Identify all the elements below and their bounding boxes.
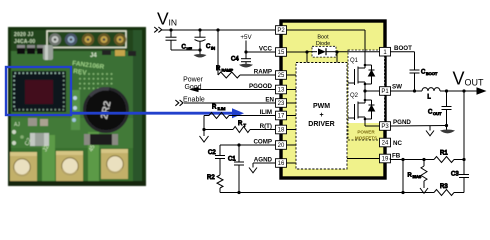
resistor RRAMP <box>216 66 275 78</box>
junction node bottom rail/FB vertical <box>401 160 404 195</box>
ground arrow (PGND) <box>426 126 434 136</box>
pin 24 (right) <box>380 138 391 147</box>
capacitor CIN (polarized) <box>195 30 216 51</box>
junction node VIN/CHF <box>169 28 172 31</box>
junction node COUT/PGND <box>445 124 448 127</box>
svg-text:13: 13 <box>278 88 285 94</box>
svg-text:COMP: COMP <box>253 139 272 146</box>
svg-text:EN: EN <box>265 97 274 104</box>
wire PVIN internal rail P2 to Q1 drain <box>286 30 365 62</box>
junction node FB/lower divider <box>401 158 404 161</box>
svg-text:OUT: OUT <box>433 111 442 116</box>
junction node VOUT/divider <box>462 89 465 92</box>
svg-text:C2: C2 <box>208 150 216 156</box>
pin P1 (right) <box>380 87 391 96</box>
resistor R3 <box>434 184 464 196</box>
svg-text:Boot: Boot <box>317 35 329 41</box>
node VOUT label <box>453 69 485 89</box>
capacitor C2 <box>208 145 225 159</box>
transistor Q2 <box>348 91 375 126</box>
PCB photo of FAN2106 evaluation board <box>8 27 146 186</box>
svg-text:BIAS: BIAS <box>413 175 422 179</box>
resistor R1 <box>434 151 464 163</box>
svg-text:PGND: PGND <box>393 119 411 126</box>
resistor RT <box>204 121 275 133</box>
junction node C1 bottom <box>237 191 240 194</box>
ground arrow (AGND) <box>249 163 257 173</box>
pin 23 (left) <box>276 99 287 108</box>
resistor R2 <box>207 159 223 193</box>
pin 1 (right) <box>380 47 391 56</box>
pin P2 (left) <box>276 26 287 35</box>
pin 16 (left) <box>276 159 287 168</box>
svg-text:Q2: Q2 <box>350 93 359 99</box>
svg-text:R: R <box>408 173 412 179</box>
junction node boot diode anode <box>305 50 308 53</box>
svg-text:R3: R3 <box>440 184 448 190</box>
input connector chevron VIN <box>154 27 162 32</box>
wire VIN rail <box>162 29 276 31</box>
svg-text:ILIM: ILIM <box>260 109 272 116</box>
junction node VOUT/COUT <box>445 89 448 92</box>
ground (C4) <box>239 64 253 68</box>
svg-text:FB: FB <box>392 153 401 160</box>
svg-text:V: V <box>157 9 169 29</box>
wire AGND <box>253 162 275 164</box>
wire PGOOD with arrow <box>189 87 275 92</box>
wire VCC <box>246 51 275 53</box>
ground arrow (RBIAS) <box>420 184 428 194</box>
svg-text:IN: IN <box>169 18 178 28</box>
svg-text:R: R <box>212 105 217 111</box>
svg-text:15: 15 <box>278 50 285 56</box>
svg-text:C1: C1 <box>228 157 236 163</box>
svg-text:RAMP: RAMP <box>254 69 272 76</box>
pin 18 (left) <box>276 125 287 134</box>
svg-text:P2: P2 <box>277 28 285 34</box>
junction node +5V/C4 <box>244 50 247 53</box>
wire EN <box>184 102 275 104</box>
capacitor CHF <box>166 30 201 51</box>
power MOSFETs dashed box <box>348 50 385 141</box>
svg-text:NC: NC <box>393 140 402 147</box>
+5V supply node <box>240 34 252 52</box>
wire SW internal <box>363 89 380 92</box>
svg-text:J4CA-00: J4CA-00 <box>14 39 35 45</box>
junction node VIN/RRAMP branch <box>216 28 219 31</box>
svg-text:P3: P3 <box>381 124 389 130</box>
svg-text:20: 20 <box>278 143 285 149</box>
svg-text:VCC: VCC <box>259 46 273 53</box>
resistor RBIAS <box>408 160 428 184</box>
svg-text:16: 16 <box>278 161 285 167</box>
svg-text:PGOOD: PGOOD <box>249 83 273 90</box>
pin P3 (right) <box>380 122 391 131</box>
svg-text:R1: R1 <box>440 151 448 157</box>
svg-text:R(T): R(T) <box>260 123 272 130</box>
svg-text:ILIM: ILIM <box>218 106 226 111</box>
wire SW to VOUT rail <box>390 87 487 94</box>
svg-text:17: 17 <box>278 114 285 120</box>
svg-text:23: 23 <box>278 101 285 107</box>
capacitor COUT <box>428 91 452 126</box>
junction node COMP/C1 <box>237 143 240 146</box>
svg-text:19: 19 <box>382 157 389 163</box>
transistor Q1 <box>348 58 375 91</box>
resistor RILIM <box>204 105 275 119</box>
wire FB <box>390 159 434 160</box>
svg-text:R: R <box>238 121 243 127</box>
svg-text:Q1: Q1 <box>350 58 359 64</box>
svg-text:BOOT: BOOT <box>394 45 412 52</box>
pin 25 (left) <box>276 71 287 80</box>
svg-text:DRIVER: DRIVER <box>308 121 334 128</box>
capacitor C4 <box>231 52 251 65</box>
svg-text:PWM: PWM <box>313 103 330 110</box>
svg-text:V: V <box>453 69 465 89</box>
pin 17 (left) <box>276 111 287 120</box>
svg-text:+: + <box>319 112 323 119</box>
svg-text:2020 JJ: 2020 JJ <box>14 32 33 38</box>
junction node R1/VOUT sense <box>462 158 465 161</box>
pin 20 (left) <box>276 141 287 150</box>
svg-text:24: 24 <box>382 141 389 147</box>
callout arrow from PCB chip to ILIM node <box>71 108 244 118</box>
svg-text:AJ: AJ <box>14 122 20 128</box>
op-amp/regulator IC U1 FAN2106 body <box>281 21 385 178</box>
svg-text:OUT: OUT <box>465 78 485 88</box>
svg-text:SW: SW <box>392 84 402 91</box>
svg-text:Enable: Enable <box>183 97 205 104</box>
svg-text:P1: P1 <box>381 89 389 95</box>
junction node boot diode cathode <box>335 50 338 53</box>
pin 15 (left) <box>276 48 287 57</box>
inductor L <box>422 88 440 101</box>
label Power Good <box>183 77 204 92</box>
svg-text:MOSFETS: MOSFETS <box>355 136 377 141</box>
boot diode D1 <box>307 35 337 58</box>
pin 13 (left) <box>276 85 287 94</box>
svg-text:C4: C4 <box>231 57 239 63</box>
svg-text:HF: HF <box>187 46 193 51</box>
wire VOUT sense down <box>463 91 465 160</box>
label Enable <box>183 97 205 104</box>
node VIN label <box>157 9 177 29</box>
ground (input caps) <box>194 50 207 57</box>
ground arrow (RT node) <box>200 130 209 143</box>
blue highlight box on PCB chip <box>6 67 71 115</box>
svg-text:R2: R2 <box>207 175 215 181</box>
junction node VIN/CIN <box>198 28 201 31</box>
wire COMP <box>220 144 275 146</box>
wire BOOT <box>390 52 415 70</box>
svg-text:POWER: POWER <box>357 130 375 135</box>
svg-text:R: R <box>216 66 221 72</box>
PWM + DRIVER block <box>296 63 347 170</box>
enable connector chevron <box>175 100 183 106</box>
svg-text:RAMP: RAMP <box>222 67 234 72</box>
svg-text:Diode: Diode <box>316 41 330 47</box>
internal pin stubs to PWM block <box>286 75 380 163</box>
wire PGND <box>390 125 447 128</box>
junction node input cap ground <box>198 48 201 51</box>
wire VIN branch down to RRAMP <box>217 30 219 75</box>
svg-text:Power: Power <box>183 77 204 84</box>
wire compensation bottom rail <box>220 192 434 194</box>
svg-text:IN: IN <box>211 46 215 51</box>
svg-text:J4: J4 <box>90 53 97 59</box>
capacitor CBOOT <box>410 70 438 92</box>
svg-text:Good: Good <box>184 84 201 91</box>
wire PGND internal <box>365 125 380 127</box>
capacitor C1 <box>228 145 244 193</box>
svg-text:+5V: +5V <box>240 34 252 41</box>
wire ILIM to RT junction <box>203 116 205 130</box>
svg-text:BOOT: BOOT <box>426 71 438 76</box>
svg-text:AGND: AGND <box>254 157 273 164</box>
svg-text:C3: C3 <box>451 172 459 178</box>
junction node RT <box>202 128 205 131</box>
junction node FB/RBIAS <box>422 158 425 161</box>
ground (COUT) <box>440 126 455 134</box>
junction node CBOOT/SW <box>413 89 416 92</box>
wire VCC internal to boot diode <box>286 52 380 63</box>
svg-text:25: 25 <box>278 73 285 79</box>
capacitor C3 <box>451 160 469 193</box>
pin 19 (right) <box>380 154 391 163</box>
svg-text:18: 18 <box>278 128 285 134</box>
